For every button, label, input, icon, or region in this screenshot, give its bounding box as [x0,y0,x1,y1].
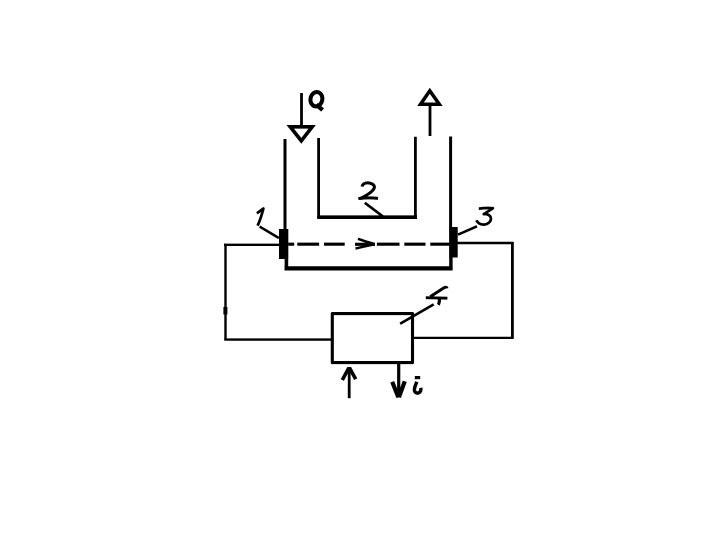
leader line from 4 into box [400,304,434,323]
heat input arrow Q shaft [300,93,303,125]
label Q [309,91,324,110]
wire left vertical [224,244,226,341]
wire bottom left to load box [224,338,332,340]
label 1 [257,209,264,226]
dashed current line through bar [288,243,449,246]
wire from electrode 1 to left [224,244,280,246]
outflow arrow shaft [429,105,432,137]
leader line from 3 to electrode [458,226,477,234]
leader line from 2 to inner channel [365,203,383,217]
current output arrow (down) [392,364,405,398]
electrode 3 (right black block) [449,227,457,258]
channel inner U bottom [317,215,417,219]
label 2 [360,183,378,199]
leader line from 1 to electrode [260,227,279,238]
input arrow below box (up) [342,367,355,398]
label 3 [477,208,493,225]
junction blob on left wire [223,307,227,315]
outflow arrowhead (hollow triangle up) [421,91,440,105]
wire right vertical [511,242,514,339]
thermoelement bar bottom edge [285,266,453,270]
channel inner right wall [414,137,417,219]
channel inner left wall [317,138,320,218]
label i [414,378,421,393]
heat input arrowhead (hollow triangle down) [290,127,312,141]
channel outer left wall [284,139,287,231]
wire from electrode 3 to right [458,242,514,244]
label 4 diagonal stroke [430,287,447,296]
channel outer right wall [449,137,452,231]
current direction arrowhead on dashed line [356,239,375,249]
label 4 horizontal bar [426,296,448,299]
thermoelement bar left edge [285,229,289,270]
thermoelement bar right edge [449,229,452,270]
label 4 descender [438,298,439,304]
electrode 1 (left black block) [279,229,288,259]
wire bottom right to load box [412,337,514,339]
load box 4 [332,314,412,363]
